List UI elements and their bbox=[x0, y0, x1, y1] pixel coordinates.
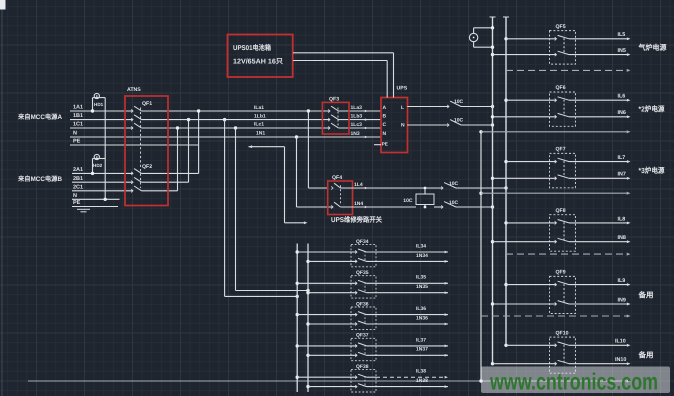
svg-text:1Lb1: 1Lb1 bbox=[254, 113, 266, 119]
svg-text:QF34: QF34 bbox=[356, 239, 369, 245]
svg-text:QF2: QF2 bbox=[142, 164, 152, 170]
svg-text:IN10: IN10 bbox=[615, 357, 626, 363]
svg-text:ILa1: ILa1 bbox=[254, 105, 264, 111]
svg-text:2C1: 2C1 bbox=[73, 184, 83, 190]
svg-text:来自MCC电源B: 来自MCC电源B bbox=[17, 175, 62, 183]
svg-text:1N3: 1N3 bbox=[351, 131, 360, 137]
svg-text:2B1: 2B1 bbox=[73, 176, 83, 182]
svg-text:气炉电源: 气炉电源 bbox=[638, 43, 668, 52]
svg-text:1B1: 1B1 bbox=[73, 113, 83, 119]
svg-text:10C: 10C bbox=[454, 117, 464, 123]
svg-text:PE: PE bbox=[73, 200, 81, 206]
svg-text:QF8: QF8 bbox=[556, 208, 566, 214]
svg-text:1N34: 1N34 bbox=[416, 253, 428, 259]
svg-text:1N37: 1N37 bbox=[416, 347, 428, 353]
svg-text:QF5: QF5 bbox=[556, 24, 566, 30]
svg-text:IL36: IL36 bbox=[416, 306, 426, 312]
svg-text:1N4: 1N4 bbox=[354, 201, 363, 207]
svg-text:1N1: 1N1 bbox=[256, 131, 265, 137]
svg-text:ATNS: ATNS bbox=[127, 87, 141, 93]
svg-text:IL8: IL8 bbox=[618, 216, 626, 222]
svg-text:HD2: HD2 bbox=[93, 163, 103, 168]
svg-text:*2炉电源: *2炉电源 bbox=[639, 105, 666, 114]
svg-text:N: N bbox=[73, 193, 77, 199]
svg-text:10C: 10C bbox=[403, 198, 413, 204]
svg-text:12V/65AH 16只: 12V/65AH 16只 bbox=[233, 58, 283, 66]
svg-text:IL10: IL10 bbox=[615, 339, 626, 345]
svg-text:L: L bbox=[401, 105, 404, 111]
svg-text:UPS01电池箱: UPS01电池箱 bbox=[233, 43, 271, 52]
svg-text:www.cntronics.com: www.cntronics.com bbox=[489, 369, 658, 395]
svg-text:C: C bbox=[383, 122, 387, 128]
svg-text:1L4: 1L4 bbox=[354, 182, 363, 188]
svg-text:1N36: 1N36 bbox=[416, 315, 428, 321]
svg-text:IN8: IN8 bbox=[618, 235, 626, 241]
svg-text:N: N bbox=[73, 131, 77, 137]
svg-text:IL5: IL5 bbox=[618, 32, 626, 38]
svg-text:B: B bbox=[383, 114, 387, 120]
svg-text:N: N bbox=[383, 131, 387, 137]
svg-text:1N38: 1N38 bbox=[416, 378, 428, 384]
svg-text:IN5: IN5 bbox=[618, 48, 626, 54]
svg-text:IL7: IL7 bbox=[618, 155, 626, 161]
svg-text:QF37: QF37 bbox=[356, 333, 369, 339]
svg-text:QF7: QF7 bbox=[556, 147, 566, 153]
svg-text:QF1: QF1 bbox=[142, 101, 152, 107]
svg-text:ILc1: ILc1 bbox=[254, 122, 264, 128]
svg-text:PE: PE bbox=[382, 141, 388, 146]
svg-text:1A1: 1A1 bbox=[73, 105, 83, 111]
svg-text:QF35: QF35 bbox=[356, 270, 369, 276]
svg-text:1C1: 1C1 bbox=[73, 122, 83, 128]
svg-text:来自MCC电源A: 来自MCC电源A bbox=[17, 113, 62, 121]
svg-text:IL38: IL38 bbox=[416, 369, 426, 375]
svg-text:IN9: IN9 bbox=[618, 297, 626, 303]
svg-text:10C: 10C bbox=[454, 99, 464, 105]
svg-text:QF38: QF38 bbox=[356, 364, 369, 370]
svg-text:IL37: IL37 bbox=[416, 337, 426, 343]
svg-text:1Lc3: 1Lc3 bbox=[351, 122, 363, 128]
svg-text:备用: 备用 bbox=[637, 351, 653, 360]
svg-text:HD1: HD1 bbox=[94, 102, 104, 107]
svg-text:10C: 10C bbox=[449, 181, 459, 187]
svg-text:IL34: IL34 bbox=[416, 243, 426, 249]
svg-text:A: A bbox=[383, 105, 387, 111]
svg-text:IL35: IL35 bbox=[416, 275, 426, 281]
svg-text:1La3: 1La3 bbox=[351, 105, 363, 111]
svg-text:QF6: QF6 bbox=[556, 85, 566, 91]
svg-text:IL6: IL6 bbox=[618, 94, 626, 100]
svg-text:QF4: QF4 bbox=[332, 175, 342, 181]
svg-text:1Lb3: 1Lb3 bbox=[351, 114, 363, 120]
svg-text:QF9: QF9 bbox=[556, 270, 566, 276]
svg-text:N: N bbox=[401, 122, 405, 128]
svg-text:2A1: 2A1 bbox=[73, 167, 83, 173]
svg-text:QF10: QF10 bbox=[556, 330, 569, 336]
svg-text:IN7: IN7 bbox=[618, 172, 626, 178]
svg-text:UPS维修旁路开关: UPS维修旁路开关 bbox=[331, 215, 383, 224]
svg-text:PE: PE bbox=[73, 139, 81, 145]
svg-text:IL9: IL9 bbox=[618, 278, 626, 284]
svg-text:备用: 备用 bbox=[637, 291, 653, 300]
svg-text:UPS: UPS bbox=[397, 86, 408, 92]
svg-text:10C: 10C bbox=[449, 200, 459, 206]
svg-text:1N35: 1N35 bbox=[416, 284, 428, 290]
svg-text:QF3: QF3 bbox=[329, 97, 339, 103]
svg-text:IN6: IN6 bbox=[618, 110, 626, 116]
svg-text:QF36: QF36 bbox=[356, 301, 369, 307]
svg-text:*3炉电源: *3炉电源 bbox=[639, 166, 666, 175]
